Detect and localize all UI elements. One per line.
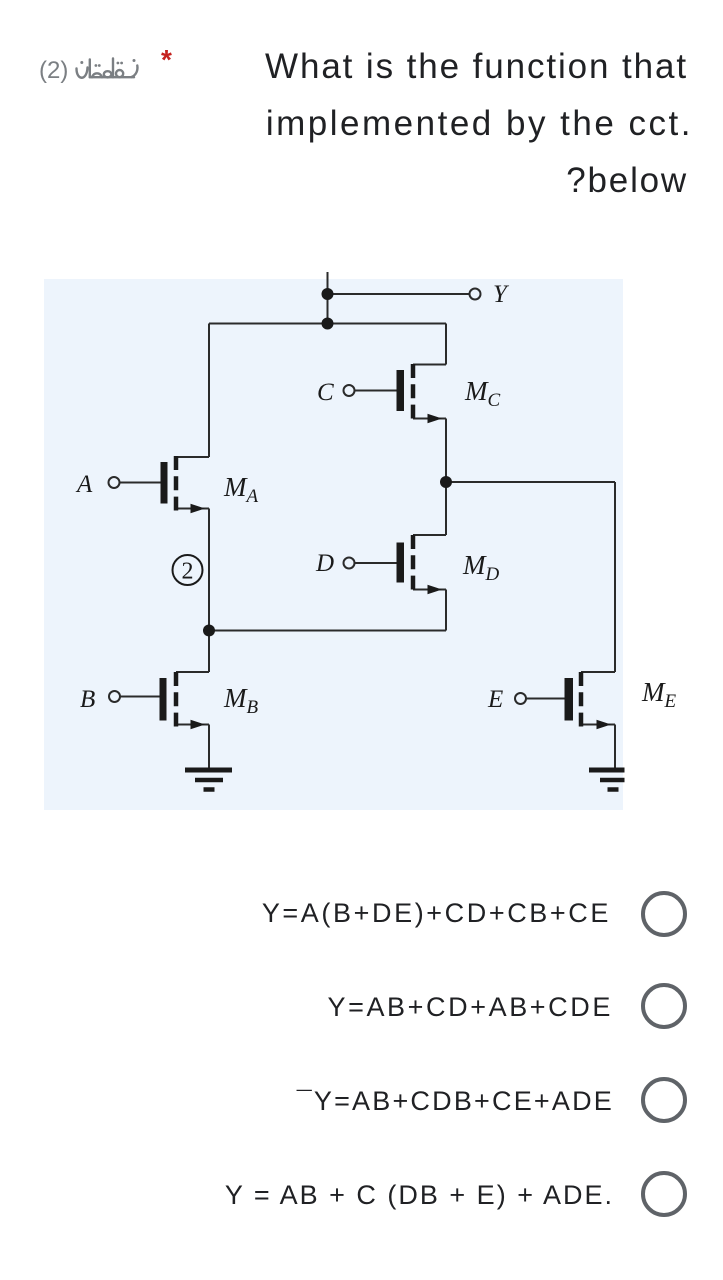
svg-text:B: B <box>80 686 95 713</box>
wire to output Y <box>328 293 470 295</box>
wire top stub above Y rail <box>327 272 329 294</box>
ground right <box>589 770 625 790</box>
wire top rail <box>209 323 446 325</box>
input terminal C <box>317 379 397 406</box>
wire rail down to MC drain <box>445 324 447 365</box>
figure background <box>44 279 623 810</box>
option 3 text <box>297 1086 614 1117</box>
option 2 radio <box>641 983 687 1029</box>
wire MA source down to node 2 <box>208 509 210 631</box>
option 2 text <box>327 992 613 1023</box>
points label Arabic word (drawn) <box>72 52 142 92</box>
wire node2 horizontal to MD source <box>209 630 446 632</box>
svg-text:C: C <box>317 379 334 406</box>
option 1 radio <box>641 891 687 937</box>
transistor MD <box>397 535 447 594</box>
junction J1 <box>322 288 334 300</box>
svg-text:E: E <box>487 686 503 713</box>
svg-text:A: A <box>75 471 93 498</box>
circuit figure <box>44 270 704 820</box>
input terminal D <box>315 550 397 577</box>
transistor MC <box>397 364 447 423</box>
transistor MB <box>160 672 210 729</box>
transistor MA <box>161 456 210 513</box>
input terminal E <box>487 686 565 713</box>
option 3 radio <box>641 1077 687 1123</box>
wire MB source to ground <box>208 725 210 770</box>
wire J1 to J2 <box>327 294 329 324</box>
option 1 text <box>262 898 611 929</box>
node 2 junction <box>203 625 215 637</box>
svg-text:2: 2 <box>182 559 194 585</box>
junction J2 <box>322 318 334 330</box>
wire MD source down to node2 rail <box>445 590 447 631</box>
option 4 text <box>225 1180 614 1211</box>
svg-text:ME: ME <box>641 677 677 712</box>
transistor ME <box>565 672 616 729</box>
annotation circled 2 <box>173 555 203 585</box>
input terminal A <box>75 471 161 498</box>
required asterisk <box>161 44 172 76</box>
wire ME source to ground <box>614 725 616 770</box>
wire MC source to node X <box>445 419 447 483</box>
wire left branch down to MA drain <box>208 324 210 458</box>
option 4 radio <box>641 1171 687 1217</box>
question title <box>128 38 688 209</box>
svg-text:D: D <box>315 550 334 577</box>
output terminal Y <box>470 281 511 308</box>
input terminal B <box>80 686 160 713</box>
points label "(2)" <box>39 57 68 85</box>
wire node2 down to MB drain <box>208 631 210 673</box>
wire node X down to MD drain <box>445 482 447 535</box>
ground left <box>185 770 232 790</box>
wire right branch down to ME drain <box>614 482 616 672</box>
wire node X to ME drain branch <box>446 481 615 483</box>
node X junction <box>440 476 452 488</box>
